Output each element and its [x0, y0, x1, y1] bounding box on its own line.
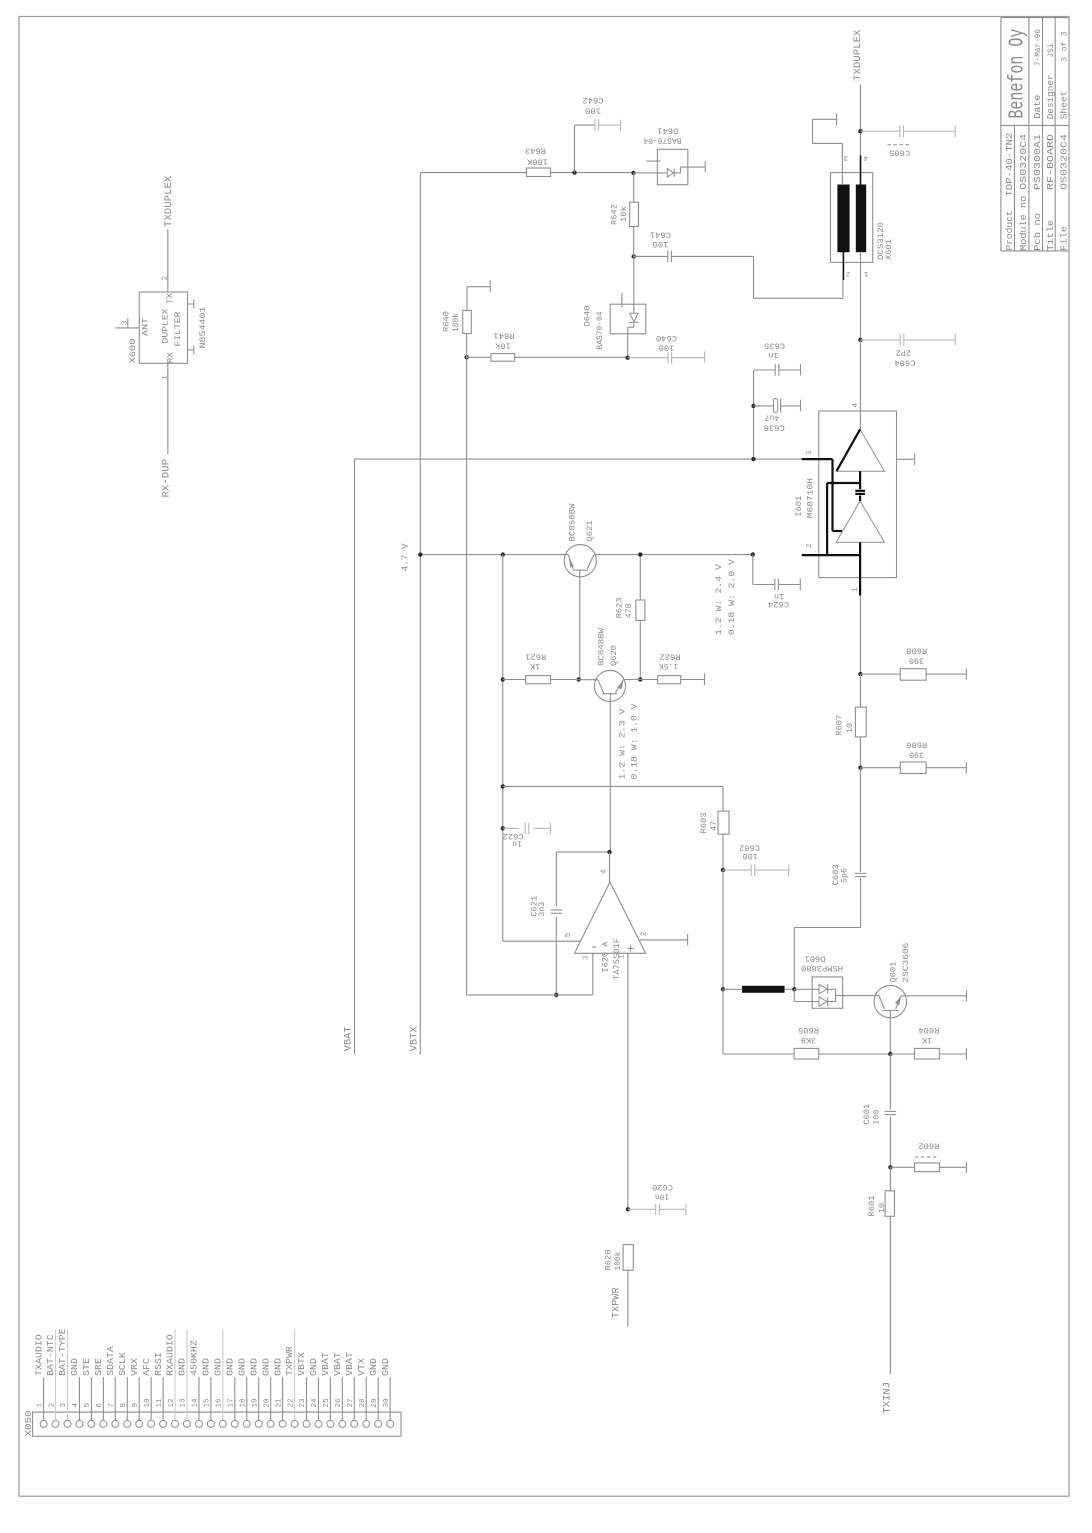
- amplifier I601 M68710H box: [819, 411, 897, 578]
- svg-text:GND: GND: [272, 1358, 283, 1376]
- svg-text:FILTER: FILTER: [173, 312, 183, 347]
- svg-text:14: 14: [192, 1398, 200, 1408]
- connector pin 11 RSSI: [160, 1420, 167, 1427]
- svg-text:1K: 1K: [921, 1035, 932, 1045]
- coupler X601 DCS3120 box: [831, 173, 873, 263]
- wire bias rail py459 (VBAT to PA pin3): [355, 458, 802, 460]
- svg-text:10: 10: [877, 1203, 887, 1213]
- svg-text:X050: X050: [23, 1410, 34, 1436]
- svg-text:GND: GND: [248, 1358, 259, 1376]
- svg-text:R604: R604: [918, 1025, 939, 1035]
- svg-text:2: 2: [48, 1403, 56, 1408]
- node R606 tap: [858, 766, 862, 770]
- capacitor C622: [503, 827, 519, 829]
- svg-text:26: 26: [335, 1398, 343, 1408]
- X601 pin 4: [860, 156, 862, 186]
- svg-text:13: 13: [180, 1398, 188, 1408]
- svg-text:C602: C602: [739, 843, 760, 853]
- svg-text:BC848BW: BC848BW: [597, 627, 607, 666]
- svg-text:JSi: JSi: [1046, 44, 1056, 58]
- X600 pin 3 ANT wire: [115, 327, 139, 329]
- svg-text:VBAT: VBAT: [344, 1352, 355, 1376]
- svg-text:GND: GND: [368, 1358, 379, 1376]
- PA pin 4 wire: [859, 340, 861, 429]
- connector pin 3 BAT-TYPE: [64, 1420, 71, 1427]
- connector pin 8 SCLK: [124, 1420, 131, 1427]
- svg-text:8: 8: [120, 1403, 128, 1408]
- svg-text:RX-DUP: RX-DUP: [161, 459, 173, 498]
- resistor R605 3K9: [722, 989, 724, 1054]
- resistor R642: [633, 173, 635, 202]
- D601 diode B: [793, 989, 795, 1001]
- connector pin 1 TXAUDIO: [40, 1420, 47, 1427]
- svg-text:0.18 W: 2.0 V: 0.18 W: 2.0 V: [727, 558, 737, 635]
- svg-text:GND: GND: [308, 1358, 319, 1376]
- svg-text:BAS70-04: BAS70-04: [595, 312, 605, 350]
- capacitor C635: [754, 369, 776, 371]
- wire opamp top rail: [556, 851, 609, 853]
- svg-text:15: 15: [204, 1398, 212, 1408]
- capacitor C603 5p6: [859, 768, 861, 872]
- svg-text:C620: C620: [652, 1182, 673, 1192]
- capacitor C642: [574, 125, 576, 173]
- svg-text:1.2 W: 2.4 V: 1.2 W: 2.4 V: [714, 563, 724, 635]
- capacitor C636 polarized: [754, 405, 774, 407]
- svg-text:VTX: VTX: [356, 1358, 367, 1376]
- resistor R643: [526, 168, 550, 177]
- wire line2 from R640 to opamp pin3: [466, 357, 468, 995]
- svg-text:100: 100: [585, 106, 601, 116]
- opamp pin 2 stub: [640, 939, 687, 941]
- svg-text:RF-BOARD: RF-BOARD: [1046, 134, 1056, 190]
- svg-text:SDATA: SDATA: [105, 1346, 116, 1376]
- svg-text:2: 2: [161, 275, 169, 280]
- svg-text:R640: R640: [442, 311, 452, 332]
- opamp pin 4 stub: [609, 852, 611, 882]
- capacitor C605: [860, 130, 900, 132]
- svg-text:4: 4: [852, 403, 860, 408]
- wire column to opamp network: [502, 555, 504, 942]
- svg-text:TXDUPLEX: TXDUPLEX: [163, 175, 175, 227]
- svg-text:3: 3: [121, 320, 129, 325]
- D601 cathode join: [828, 988, 836, 990]
- svg-text:DUPLEX: DUPLEX: [161, 309, 171, 344]
- svg-text:C601: C601: [862, 1104, 872, 1125]
- svg-text:100: 100: [652, 239, 668, 249]
- svg-text:10: 10: [845, 723, 855, 733]
- capacitor C624: [752, 555, 754, 585]
- svg-text:2: 2: [845, 269, 850, 277]
- node Q601 base bias: [888, 1052, 892, 1056]
- svg-text:R623: R623: [615, 597, 625, 618]
- svg-text:TDP-40-TN2: TDP-40-TN2: [1005, 133, 1015, 197]
- svg-text:24: 24: [311, 1398, 319, 1408]
- svg-text:100K: 100K: [526, 157, 548, 167]
- wire C641 to X601 pin2 step: [753, 256, 755, 298]
- svg-text:4: 4: [863, 153, 868, 161]
- node rail R623 tap: [638, 552, 642, 556]
- svg-text:R603: R603: [699, 813, 709, 834]
- resistor R640: [463, 310, 472, 333]
- svg-text:1: 1: [852, 587, 860, 592]
- X601 pin 3 step stub: [841, 143, 843, 185]
- svg-text:4: 4: [72, 1403, 80, 1408]
- node C605 tap: [858, 129, 862, 133]
- connector pin 21 GND: [279, 1420, 286, 1427]
- svg-text:R641: R641: [494, 331, 515, 341]
- svg-text:R643: R643: [525, 146, 546, 156]
- wire VBTX vertical: [419, 173, 421, 1055]
- svg-text:R607: R607: [835, 715, 845, 736]
- svg-text:GND: GND: [213, 1358, 224, 1376]
- main RF line to TXDUPLEX: [859, 85, 861, 156]
- svg-text:R602: R602: [918, 1141, 939, 1151]
- duplex filter X600 box: [139, 292, 187, 363]
- svg-text:VBTX: VBTX: [296, 1352, 307, 1376]
- connector pin 12 RXAUDIO: [172, 1420, 179, 1427]
- svg-text:11: 11: [156, 1398, 164, 1408]
- svg-text:3: 3: [60, 1403, 68, 1408]
- svg-text:3: 3: [1060, 57, 1070, 62]
- svg-text:BAT-NTC: BAT-NTC: [45, 1334, 56, 1376]
- svg-text:18: 18: [239, 1398, 247, 1408]
- connector pin 7 SDATA: [112, 1420, 119, 1427]
- svg-text:GND: GND: [69, 1358, 80, 1376]
- svg-text:5p6: 5p6: [840, 868, 850, 883]
- connector pin 23 VBTX: [303, 1420, 310, 1427]
- resistor R606: [860, 767, 900, 769]
- X600 pin 1 wire RX-DUP: [167, 363, 169, 454]
- svg-text:C642: C642: [583, 95, 604, 105]
- resistor R604 1K: [890, 1053, 914, 1055]
- svg-text:C604: C604: [894, 358, 915, 368]
- connector pin 20 GND: [267, 1420, 274, 1427]
- svg-text:Designer: Designer: [1046, 74, 1056, 119]
- svg-text:28: 28: [359, 1398, 367, 1408]
- svg-text:R621: R621: [525, 652, 546, 662]
- svg-text:TX: TX: [165, 293, 175, 304]
- svg-text:Pcb no: Pcb no: [1033, 213, 1043, 251]
- svg-text:GND: GND: [260, 1358, 271, 1376]
- svg-text:RSSI: RSSI: [153, 1352, 164, 1376]
- X600 pin 2 wire: [167, 229, 169, 292]
- transistor Q601 2SC3606: [874, 985, 906, 1017]
- svg-text:6: 6: [96, 1403, 104, 1408]
- svg-text:10k: 10k: [495, 341, 511, 351]
- diode D640 BAS70-04: [610, 304, 646, 334]
- resistor R603 47: [718, 811, 729, 834]
- connector pin 13 GND: [184, 1420, 191, 1427]
- svg-text:TXPWR: TXPWR: [611, 1287, 623, 1319]
- svg-text:1: 1: [161, 375, 169, 380]
- svg-text:VBAT: VBAT: [320, 1352, 331, 1376]
- capacitor C604: [860, 339, 900, 341]
- svg-text:C636: C636: [764, 422, 785, 432]
- svg-text:File: File: [1060, 226, 1070, 251]
- svg-text:Sheet: Sheet: [1060, 90, 1070, 119]
- svg-text:D641: D641: [657, 126, 678, 136]
- node rail C624 tap: [751, 552, 755, 556]
- connector X050 body: [33, 1412, 401, 1436]
- svg-text:PS0300A1: PS0300A1: [1033, 134, 1043, 190]
- node R640 R641 junction: [464, 355, 468, 359]
- connector pin 10 AFC: [148, 1420, 155, 1427]
- svg-text:1n: 1n: [769, 350, 779, 360]
- opamp pin 3 wire: [592, 953, 594, 995]
- svg-text:I601: I601: [794, 496, 804, 517]
- svg-text:R606: R606: [906, 739, 927, 749]
- svg-text:4: 4: [601, 869, 609, 874]
- resistor R607: [859, 674, 861, 707]
- svg-text:390: 390: [909, 749, 924, 759]
- node C636 tap: [751, 404, 755, 408]
- svg-text:20: 20: [263, 1398, 271, 1408]
- connector pin 6 SRE: [100, 1420, 107, 1427]
- transistor Q620 BC848BW: [579, 679, 598, 681]
- PA pin 2 wire: [802, 554, 860, 556]
- connector pin 19 GND: [255, 1420, 262, 1427]
- svg-text:1: 1: [36, 1403, 44, 1408]
- node Q621 base to Q620: [577, 677, 581, 681]
- svg-text:Q621: Q621: [585, 521, 595, 542]
- transistor Q621 BC858BW: [564, 545, 596, 577]
- svg-text:7-Mar-96: 7-Mar-96: [1033, 29, 1043, 66]
- connector pin 30 GND: [387, 1420, 394, 1427]
- wire VBAT vertical: [354, 459, 356, 1054]
- connector pin 28 VTX: [363, 1420, 370, 1427]
- svg-text:7: 7: [108, 1403, 116, 1408]
- svg-text:C624: C624: [768, 599, 789, 609]
- svg-text:25: 25: [323, 1398, 331, 1408]
- svg-text:X600: X600: [128, 339, 138, 364]
- connector pin 5 STE: [88, 1420, 95, 1427]
- svg-text:390: 390: [909, 656, 924, 666]
- svg-text:OS0320C4: OS0320C4: [1060, 134, 1070, 190]
- svg-text:RXAUDIO: RXAUDIO: [165, 1334, 176, 1376]
- resistor R608: [860, 673, 900, 675]
- svg-text:1: 1: [864, 269, 869, 277]
- node opamp pin4 supply: [607, 850, 611, 854]
- svg-text:VRX: VRX: [129, 1358, 140, 1376]
- svg-text:R601: R601: [867, 1196, 877, 1217]
- svg-text:GND: GND: [201, 1358, 212, 1376]
- resistor R641: [467, 356, 491, 358]
- svg-text:Title: Title: [1046, 220, 1056, 251]
- node C620 tap: [626, 1207, 630, 1211]
- svg-text:2: 2: [806, 543, 814, 548]
- svg-text:4u7: 4u7: [765, 413, 780, 423]
- svg-text:2SC3606: 2SC3606: [901, 943, 911, 983]
- D601 diode A: [794, 988, 819, 990]
- node C604 tap: [858, 338, 862, 342]
- node rail/column junction: [751, 457, 755, 461]
- svg-text:4.7 V: 4.7 V: [400, 543, 411, 571]
- svg-text:10n: 10n: [655, 1192, 669, 1202]
- svg-text:9: 9: [132, 1403, 140, 1408]
- capacitor C601 100: [889, 1054, 891, 1109]
- node C601 R602 junction: [888, 1165, 892, 1169]
- svg-text:1: 1: [619, 954, 627, 959]
- svg-text:Benefon Oy: Benefon Oy: [1007, 29, 1030, 119]
- svg-text:19: 19: [251, 1398, 259, 1408]
- connector pin 17 GND: [231, 1420, 238, 1427]
- svg-text:16: 16: [216, 1398, 224, 1408]
- capacitor C621 3n3: [555, 852, 557, 906]
- svg-text:2P2: 2P2: [896, 348, 911, 358]
- svg-text:3: 3: [843, 153, 848, 161]
- node C622 corner: [501, 826, 505, 830]
- connector pin 27 VBAT: [351, 1420, 358, 1427]
- svg-text:GND: GND: [380, 1358, 391, 1376]
- connector pin 4 GND: [76, 1420, 83, 1427]
- connector pin 9 VRX: [136, 1420, 143, 1427]
- svg-text:1.2 W: 2.3 V: 1.2 W: 2.3 V: [618, 708, 628, 780]
- svg-text:VBTX: VBTX: [409, 1026, 421, 1052]
- svg-text:470: 470: [624, 603, 634, 618]
- svg-text:3: 3: [806, 450, 814, 455]
- svg-text:BAS70-04: BAS70-04: [644, 135, 682, 145]
- svg-text:3n3: 3n3: [537, 902, 547, 917]
- node D601 feed: [792, 987, 796, 991]
- svg-text:R622: R622: [660, 652, 681, 662]
- resistor R620 100k: [623, 1245, 633, 1271]
- resistor R602: [890, 1166, 914, 1168]
- PA internal coupling cap: [859, 471, 861, 489]
- main line PA pin1 down: [859, 596, 861, 675]
- PA pin 1 wire: [859, 542, 861, 595]
- svg-text:OS0320C4: OS0320C4: [1019, 134, 1029, 190]
- svg-text:RX: RX: [166, 352, 176, 363]
- svg-text:0.18 W: 1.0 V: 0.18 W: 1.0 V: [630, 703, 640, 780]
- capacitor C620 10n: [628, 1208, 656, 1210]
- node C642 tap: [572, 170, 576, 174]
- svg-text:C641: C641: [650, 230, 671, 240]
- svg-text:C635: C635: [764, 340, 785, 350]
- capacitor C602: [723, 869, 752, 871]
- wire column to stripline row: [722, 870, 724, 989]
- svg-text:2: 2: [641, 931, 649, 936]
- svg-text:3: 3: [1060, 31, 1070, 36]
- svg-text:GND: GND: [236, 1358, 247, 1376]
- X601 pin 1: [860, 252, 862, 340]
- svg-text:3K9: 3K9: [801, 1035, 816, 1045]
- wire R643 row: [420, 172, 526, 174]
- node D641 R642 junction: [631, 171, 635, 175]
- svg-text:N854401: N854401: [198, 307, 208, 349]
- svg-text:M68710H: M68710H: [805, 478, 815, 518]
- opamp I620 TA75S01F triangle: [575, 882, 646, 953]
- svg-text:STE: STE: [81, 1358, 92, 1376]
- connector pin 15 GND: [207, 1420, 214, 1427]
- stripline black bar: [743, 986, 785, 992]
- PA amp stage 2 triangle: [837, 429, 885, 471]
- svg-text:BAT-TYPE: BAT-TYPE: [57, 1328, 68, 1376]
- Q601 emitter stub: [902, 995, 967, 997]
- svg-text:GND: GND: [177, 1358, 188, 1376]
- svg-text:SCLK: SCLK: [117, 1352, 128, 1376]
- PA ground stub: [897, 458, 915, 460]
- svg-text:VBAT: VBAT: [332, 1352, 343, 1376]
- svg-text:SRE: SRE: [93, 1358, 104, 1376]
- wire step down to stripline row: [794, 927, 860, 929]
- connector pin 14 450KHZ: [195, 1420, 202, 1427]
- svg-text:450KHZ: 450KHZ: [189, 1340, 200, 1376]
- svg-text:100k: 100k: [613, 1252, 623, 1271]
- svg-text:10k: 10k: [619, 206, 629, 222]
- node R608 tap: [858, 672, 862, 676]
- svg-text:R605: R605: [798, 1025, 819, 1035]
- svg-text:HSMP3880: HSMP3880: [801, 963, 843, 973]
- resistor R623 470: [639, 555, 641, 600]
- svg-text:29: 29: [371, 1398, 379, 1408]
- coupler X601 bar A: [838, 185, 849, 252]
- connector pin 16 GND: [219, 1420, 226, 1427]
- diode D601 HSMP3880 box: [812, 977, 843, 1008]
- node C602 tap: [721, 868, 725, 872]
- svg-text:47: 47: [709, 821, 719, 831]
- coupler X601 bar B: [856, 185, 865, 252]
- X600 RX test stub: [188, 349, 194, 351]
- svg-text:12: 12: [168, 1398, 176, 1408]
- svg-text:TXDUPLEX: TXDUPLEX: [852, 29, 864, 81]
- svg-text:Q620: Q620: [609, 645, 619, 666]
- svg-text:27: 27: [347, 1398, 355, 1407]
- connector pin 29 GND: [375, 1420, 382, 1427]
- node stripline left: [721, 987, 725, 991]
- wire 4.7V rail: [420, 554, 568, 556]
- resistor R621: [503, 679, 526, 681]
- wire C635/C636 column: [753, 370, 755, 459]
- capacitor C641: [634, 255, 668, 257]
- svg-text:100: 100: [743, 851, 758, 861]
- svg-text:1K: 1K: [529, 661, 540, 671]
- node C621 bottom junction: [554, 993, 558, 997]
- opamp pin 5 wire: [503, 940, 580, 942]
- connector pin 18 GND: [243, 1420, 250, 1427]
- node VBTX rail start: [418, 552, 422, 556]
- title block grid: [1000, 18, 1002, 251]
- svg-text:I620 A: I620 A: [601, 941, 611, 973]
- PA amp stage 1 triangle: [836, 501, 884, 542]
- node R622 R623 junction: [638, 677, 642, 681]
- X600 TX test stub: [188, 303, 194, 305]
- resistor R622: [640, 679, 657, 681]
- diode D641 BAS70-04: [657, 149, 687, 184]
- svg-text:Date: Date: [1033, 95, 1043, 119]
- connector pin 26 VBAT: [339, 1420, 346, 1427]
- node opamp feed tap: [501, 784, 505, 788]
- svg-text:100: 100: [872, 1110, 882, 1125]
- svg-text:R620: R620: [604, 1250, 614, 1271]
- svg-text:10: 10: [144, 1398, 152, 1408]
- svg-text:3: 3: [583, 955, 591, 960]
- svg-text:C605: C605: [889, 147, 910, 157]
- node rail column tap: [501, 552, 505, 556]
- svg-text:TXINJ: TXINJ: [882, 1382, 894, 1414]
- X601 pin 2: [842, 252, 844, 280]
- connector pin 25 VBAT: [327, 1420, 334, 1427]
- svg-text:ANT: ANT: [141, 318, 151, 336]
- svg-text:GND: GND: [225, 1358, 236, 1376]
- svg-text:21: 21: [275, 1398, 283, 1408]
- resistor R601 10: [889, 1167, 891, 1191]
- svg-text:17: 17: [228, 1398, 236, 1407]
- connector pin 2 BAT-NTC: [52, 1420, 59, 1427]
- svg-text:1.5K: 1.5K: [658, 661, 678, 671]
- svg-text:5: 5: [84, 1403, 92, 1408]
- capacitor C640: [628, 357, 668, 359]
- PA internal bias L wire: [826, 483, 828, 555]
